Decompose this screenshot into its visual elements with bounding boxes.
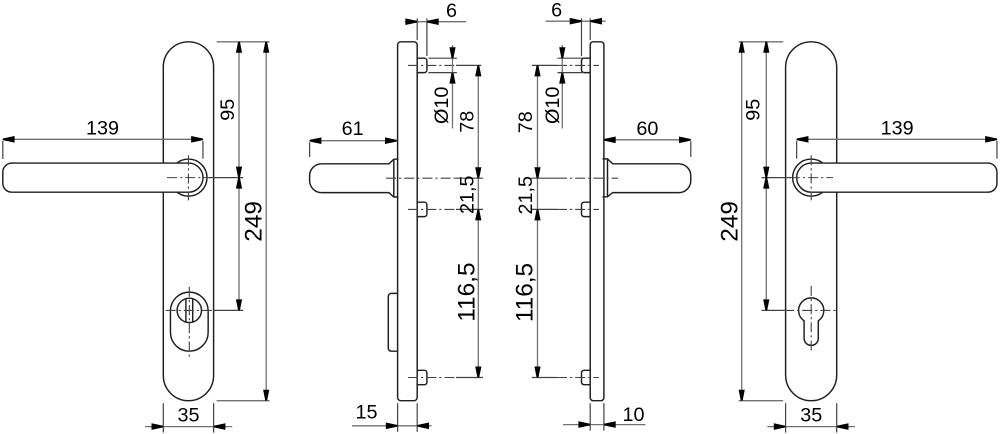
arrow 139 right xyxy=(191,136,203,143)
arrow 15 right xyxy=(417,423,429,430)
arrow 10 left xyxy=(578,421,590,428)
arrow 78 bottom xyxy=(475,167,481,178)
pin2 center extension xyxy=(456,208,483,210)
arrow 6 left xyxy=(405,18,417,25)
collar front edge v3 xyxy=(607,159,609,197)
dimension 249 line xyxy=(265,42,267,401)
dimension 6 line xyxy=(405,21,467,23)
pin3 centerline v3 xyxy=(557,377,599,379)
arrow 95 top v4 xyxy=(763,42,769,53)
top screw pin v3 xyxy=(582,58,591,72)
cylinder centerline vertical xyxy=(188,287,190,357)
pz centerline vertical xyxy=(810,286,812,353)
svg-text:21,5: 21,5 xyxy=(457,176,479,215)
pin2 center extension v3 xyxy=(532,208,557,210)
svg-text:249: 249 xyxy=(716,201,743,242)
svg-text:Ø10: Ø10 xyxy=(542,87,564,124)
handle center extension v3 xyxy=(531,177,557,179)
cylinder centerline horizontal xyxy=(166,309,213,311)
arrow 6 right v3 xyxy=(590,18,602,25)
arrow 95 bottom xyxy=(236,167,242,178)
pin1 centerline xyxy=(408,64,456,66)
pz centerline horizontal xyxy=(784,309,838,311)
pin1 center extension xyxy=(456,64,481,66)
extension handle center right xyxy=(209,177,243,179)
chain dimension line v3 xyxy=(537,65,539,377)
extension 139 left v4 xyxy=(796,141,798,159)
svg-text:116,5: 116,5 xyxy=(453,262,480,321)
extension 35 left xyxy=(162,403,164,432)
backplate interior side xyxy=(590,42,604,401)
arrow 116-5 bottom xyxy=(475,367,481,378)
arrow 139 left xyxy=(3,136,15,143)
arrow O10 top xyxy=(449,47,455,58)
pin3 center extension v3 xyxy=(532,377,557,379)
arrow 35 right xyxy=(214,423,226,430)
extension 35 left v4 xyxy=(785,403,787,432)
extension 10 right xyxy=(603,403,605,430)
chain dimension line v2 xyxy=(477,65,479,377)
dimension 6 line v3 xyxy=(546,20,606,22)
arrow 249 bottom xyxy=(263,390,269,401)
svg-text:78: 78 xyxy=(515,111,537,133)
extension plate bottom v4 xyxy=(739,400,784,402)
extension 61 left xyxy=(309,142,311,157)
arrow 92 bottom v4 xyxy=(763,299,769,310)
pz cylinder hole xyxy=(799,298,824,346)
pin1 centerline v3 xyxy=(557,64,599,66)
handle centerline side xyxy=(386,177,456,179)
dimension 35 line v4 xyxy=(767,426,855,428)
rose centerline horizontal v4 xyxy=(790,177,833,179)
extension 35 right v4 xyxy=(836,403,838,432)
arrow 92 top xyxy=(236,178,242,189)
keyway slot right line xyxy=(192,299,194,322)
middle screw pin xyxy=(417,202,427,216)
svg-text:95: 95 xyxy=(217,99,239,121)
svg-text:6: 6 xyxy=(551,0,562,22)
arrow 249 top v4 xyxy=(739,42,745,53)
dimension 95-92 line xyxy=(238,42,240,311)
top screw pin xyxy=(417,58,427,72)
dimension O10 line xyxy=(452,45,454,129)
arrow 139 right v4 xyxy=(985,136,997,143)
arrow 35 left xyxy=(152,423,164,430)
arrow 95 bottom v4 xyxy=(763,167,769,178)
lever handle side profile right xyxy=(603,159,691,197)
svg-text:116,5: 116,5 xyxy=(512,263,539,322)
extension O10 top xyxy=(428,57,457,59)
arrow 95 top xyxy=(236,42,242,53)
svg-text:95: 95 xyxy=(742,99,764,121)
dimension 60 line xyxy=(604,139,691,141)
rose centerline vertical xyxy=(187,155,189,200)
arrow 35 right v4 xyxy=(837,423,849,430)
arrow 60 right xyxy=(679,137,691,144)
lever rose circle xyxy=(170,159,207,196)
extension O10 bottom xyxy=(428,72,457,74)
cylinder bump side xyxy=(388,293,397,351)
cylinder circle xyxy=(177,298,201,322)
lever handle side profile left xyxy=(310,159,399,197)
arrow 78 bottom v3 xyxy=(534,167,540,178)
svg-text:78: 78 xyxy=(457,111,479,133)
dimension 10 line xyxy=(563,424,646,426)
dimension 61 line xyxy=(310,140,397,142)
arrow 6 left v3 xyxy=(570,18,582,25)
backplate exterior side xyxy=(398,42,418,401)
dimension 139 line xyxy=(3,138,203,140)
arrow O10 bottom xyxy=(449,73,455,84)
svg-text:Ø10: Ø10 xyxy=(431,87,453,124)
rose centerline vertical v4 xyxy=(810,155,812,200)
bottom screw pin xyxy=(417,370,427,384)
backplate interior front xyxy=(786,42,837,401)
extension handle center left v4 xyxy=(762,177,791,179)
arrow 92 bottom xyxy=(236,299,242,310)
svg-text:6: 6 xyxy=(446,0,457,22)
arrow 10 right xyxy=(604,421,616,428)
oval cylinder escutcheon xyxy=(170,292,208,351)
svg-text:61: 61 xyxy=(342,118,364,140)
arrow 78 top v3 xyxy=(534,65,540,76)
extension 60 right xyxy=(690,141,692,157)
arrow 92 top v4 xyxy=(763,178,769,189)
lever handle bar right xyxy=(797,163,997,192)
handle center extension xyxy=(456,177,483,179)
arrow 116-5 bottom v3 xyxy=(534,367,540,378)
extension 6 right xyxy=(426,18,428,56)
extension 139 right xyxy=(202,141,204,159)
svg-text:21,5: 21,5 xyxy=(515,176,537,215)
svg-text:15: 15 xyxy=(355,402,377,424)
extension 139 right v4 xyxy=(996,141,998,159)
arrow 139 left v4 xyxy=(797,136,809,143)
extension 10 left xyxy=(589,403,591,430)
extension O10 bottom v3 xyxy=(558,72,585,74)
arrow 35 left v4 xyxy=(774,423,786,430)
arrow 15 left xyxy=(386,423,398,430)
rose centerline horizontal xyxy=(167,177,211,179)
backplate exterior front xyxy=(163,42,213,401)
dimension 35 line xyxy=(145,426,232,428)
extension O10 top v3 xyxy=(558,57,585,59)
extension 139 left xyxy=(2,141,4,159)
extension 6 left xyxy=(416,18,418,40)
lever handle bar left xyxy=(3,163,203,192)
middle screw pin v3 xyxy=(582,202,591,216)
arrow O10 bottom v3 xyxy=(559,73,565,84)
extension 15 left xyxy=(397,403,399,432)
svg-text:60: 60 xyxy=(636,118,658,140)
dimension 95-92 line v4 xyxy=(765,42,767,311)
bottom screw pin v3 xyxy=(582,370,591,384)
extension plate bottom xyxy=(217,400,270,402)
arrow 249 bottom v4 xyxy=(739,390,745,401)
arrow O10 top v3 xyxy=(559,47,565,58)
extension 15 right xyxy=(416,403,418,432)
pin3 center extension xyxy=(456,377,483,379)
handle centerline side v3 xyxy=(557,177,618,179)
dimension 249 line v4 xyxy=(741,42,743,401)
svg-text:35: 35 xyxy=(177,405,199,427)
arrow 78 top xyxy=(475,65,481,76)
lever rose circle v4 xyxy=(793,159,830,196)
pin2 centerline xyxy=(408,208,456,210)
arrow 249 top xyxy=(263,42,269,53)
arrow 116-5 top xyxy=(475,209,481,220)
extension 6 left v3 xyxy=(581,18,583,56)
svg-text:139: 139 xyxy=(86,118,119,140)
pin2 centerline v3 xyxy=(557,208,599,210)
pin1 center extension v3 xyxy=(532,64,557,66)
extension plate top v4 xyxy=(739,41,784,43)
arrow 60 left xyxy=(604,137,616,144)
dimension 139 line v4 xyxy=(797,138,997,140)
arrow 116-5 top v3 xyxy=(534,209,540,220)
extension 6 right v3 xyxy=(589,18,591,40)
arrow 61 left xyxy=(310,137,322,144)
dimension 15 line xyxy=(352,425,432,427)
svg-text:35: 35 xyxy=(800,405,822,427)
svg-text:139: 139 xyxy=(881,118,914,140)
arrow 6 right xyxy=(427,18,439,25)
extension cylinder center right xyxy=(213,309,243,311)
svg-text:249: 249 xyxy=(241,201,268,242)
arrow 61 right xyxy=(385,137,397,144)
dimension O10 line v3 xyxy=(561,45,563,129)
extension plate top xyxy=(217,41,270,43)
pin3 centerline xyxy=(408,377,456,379)
extension cylinder center left v4 xyxy=(762,309,786,311)
keyway slot left line xyxy=(185,299,187,322)
svg-text:10: 10 xyxy=(622,404,644,426)
extension 35 right xyxy=(213,403,215,432)
collar front edge xyxy=(393,159,395,197)
